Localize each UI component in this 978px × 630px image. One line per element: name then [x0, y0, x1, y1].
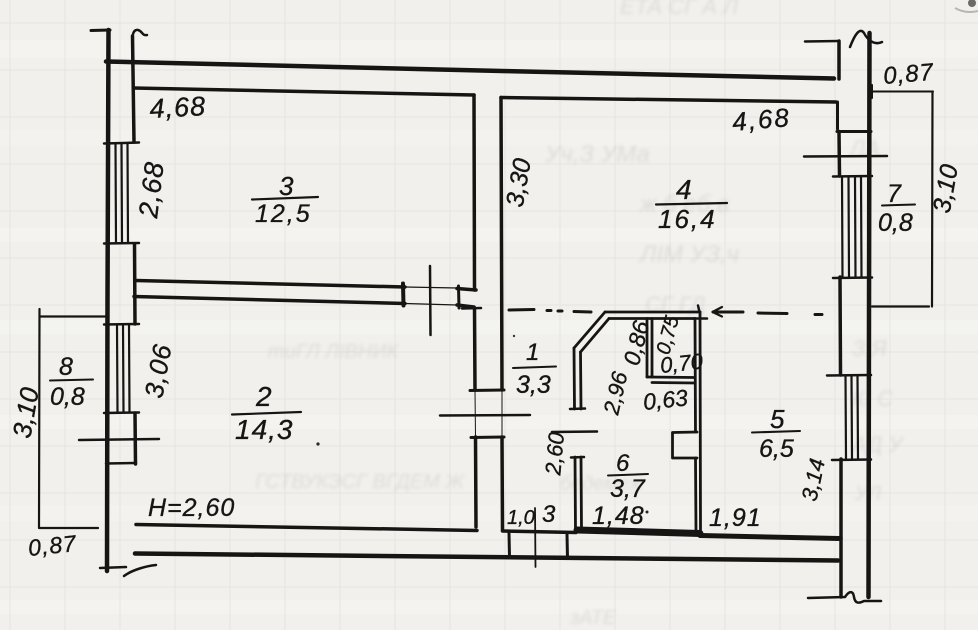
bathroom top right foot tick: [694, 317, 707, 320]
interior wall rooms3-2: upper line: [136, 281, 405, 288]
interior wall rooms3-4 / hall left: east line: [501, 98, 502, 391]
exterior wall top: inner line room 3: [134, 88, 475, 95]
door room3-room2: east post: [457, 286, 461, 308]
window W2 glazing lines: [117, 325, 130, 412]
door room2-hall: top tick: [470, 389, 504, 393]
svg-text:6,5: 6,5: [759, 435, 794, 463]
stray ink speck room2: [316, 442, 319, 445]
window W4 bottom tick: [832, 458, 871, 461]
svg-text:7: 7: [887, 180, 902, 208]
svg-text:H=2,60: H=2,60: [148, 494, 235, 522]
balcony 7: bottom edge: [872, 305, 929, 307]
window W3 room4 right wall: top tick: [833, 175, 872, 178]
svg-text:5: 5: [770, 404, 785, 434]
exterior wall left: bottom break slash: [124, 565, 156, 576]
window W1 bottom tick: [104, 242, 139, 245]
svg-text:6: 6: [616, 450, 630, 477]
dimension divider 1.0|3: [534, 508, 537, 567]
exterior wall left: top end tick: [91, 29, 110, 33]
exterior wall left: outer line: [107, 30, 109, 571]
bathroom block: top wall double: [605, 311, 700, 314]
dash-dot former partition line: [509, 308, 534, 312]
svg-text:12,5: 12,5: [255, 200, 312, 228]
svg-text:0,87: 0,87: [882, 59, 936, 90]
bleed-through ghost text: [255, 0, 905, 629]
hall top junction tick: [462, 307, 481, 310]
bathroom block: left wall east line: [579, 352, 582, 409]
bathroom block: diagonal corner double: [574, 312, 605, 348]
exterior wall right: outer line: [869, 33, 870, 597]
window W3 lintel/leaf line: [804, 155, 887, 158]
svg-text:2: 2: [255, 381, 272, 412]
window W3 bottom tick: [833, 276, 872, 279]
svg-text:14,3: 14,3: [235, 414, 294, 445]
bathroom block: top right end tick: [698, 306, 700, 313]
balcony door left: lintel/leaf line: [79, 439, 159, 440]
corner blob top right: [968, 0, 976, 7]
svg-text:ЕТА СГ А Л: ЕТА СГ А Л: [620, 0, 739, 19]
window W4 kitchen right wall: top tick: [827, 374, 871, 377]
svg-text:4: 4: [676, 174, 692, 205]
bathroom block: left wall west line: [573, 348, 576, 409]
svg-text:3,3: 3,3: [516, 371, 551, 399]
svg-text:ЛІМ УЗ,ч: ЛІМ УЗ,ч: [638, 241, 739, 268]
vent box: horizontal double: [647, 377, 695, 383]
balcony 7: right edge: [931, 92, 934, 307]
exterior wall left: inner line segments: [133, 36, 135, 142]
exterior wall left: bottom end tick: [100, 567, 126, 568]
svg-text:3,7: 3,7: [610, 475, 646, 503]
window W3 glazing lines: [842, 177, 862, 277]
balcony 7 (right): top dimension line: [872, 91, 933, 93]
window W2 room2 left wall: top tick: [104, 323, 139, 326]
svg-text:4,68: 4,68: [731, 102, 792, 137]
svg-text:ГСТВУКЭСГ ВГДЕМ Ж: ГСТВУКЭСГ ВГДЕМ Ж: [255, 471, 466, 493]
svg-text:0,8: 0,8: [50, 383, 85, 411]
exterior wall top: outer line: [106, 62, 834, 79]
exterior wall right: top break curl: [850, 31, 882, 47]
vent box: vertical double: [647, 319, 652, 378]
door room2-hall: bottom tick: [471, 436, 504, 440]
door room2-hall: leaf line: [440, 414, 530, 417]
balcony door right: sill line: [837, 130, 871, 133]
bottom wall kitchen band: [700, 536, 839, 539]
bathroom door: bottom tick: [571, 456, 584, 459]
bottom wall bathroom thick band: [577, 530, 700, 534]
bottom wall hall inner line: [503, 531, 577, 533]
stray ink speck room4: [513, 335, 515, 337]
svg-text:1,48: 1,48: [592, 502, 645, 530]
door room3-room2: west post: [401, 284, 406, 306]
door room3-room2: leaf line: [429, 266, 432, 335]
exterior wall bottom: outer line: [135, 554, 838, 561]
svg-text:2,60: 2,60: [540, 430, 569, 477]
exterior wall right: inner stub above top wall: [837, 41, 841, 79]
bathroom block: right wall east line: [699, 312, 702, 530]
bathroom vent notch: [673, 432, 698, 458]
svg-text:зАТЕ: зАТЕ: [569, 607, 617, 629]
svg-text:3: 3: [542, 501, 556, 528]
exterior wall right: inner line segments: [837, 132, 841, 177]
svg-text:0,70: 0,70: [659, 349, 705, 378]
interior wall rooms3-4 / hall left: west line: [472, 95, 476, 290]
bathroom door: top tick: [570, 407, 585, 410]
exterior wall right: top tick: [805, 40, 839, 43]
window W1 room3 left wall: top tick: [104, 143, 139, 144]
svg-text:16,4: 16,4: [658, 204, 717, 234]
bathroom block: right wall west line: [694, 319, 697, 433]
balcony 8 (left): outline: [39, 309, 108, 528]
bathroom door: leaf line: [552, 430, 597, 433]
entry porch: west jamb: [508, 534, 512, 558]
window W4 glazing lines: [846, 376, 859, 459]
exterior wall right: bottom break squiggle: [808, 592, 881, 603]
bottom wall room2 inner line: [136, 525, 477, 531]
svg-text:8: 8: [59, 353, 73, 381]
balcony door right: jamb down from top wall: [836, 102, 839, 129]
balcony door left: top tick: [106, 462, 136, 465]
svg-text:1: 1: [526, 339, 539, 366]
exterior wall top: inner line room 4: [501, 98, 836, 103]
svg-text:4,68: 4,68: [149, 91, 207, 124]
svg-text:3: 3: [279, 171, 294, 201]
exterior wall right: below-building pillar: [839, 538, 843, 597]
svg-text:0,8: 0,8: [878, 209, 913, 237]
svg-text:1,91: 1,91: [709, 504, 762, 532]
stray ink speck near 1,48: [646, 511, 649, 514]
window W1 glazing lines: [116, 144, 129, 243]
balcony 7: arrow tick at wall: [871, 85, 873, 98]
svg-text:Уч,З УМа: Уч,З УМа: [544, 141, 650, 168]
svg-text:1,0: 1,0: [507, 507, 535, 529]
svg-text:тиГЛ ЛІВНИК: тиГЛ ЛІВНИК: [268, 341, 400, 363]
svg-text:0,63: 0,63: [642, 384, 689, 415]
svg-text:0,87: 0,87: [27, 530, 78, 561]
window W2 bottom tick: [104, 411, 139, 414]
entry porch: east jamb: [566, 535, 570, 559]
exterior wall left: top break curl: [132, 30, 147, 48]
interior wall rooms3-2: lower line: [134, 297, 405, 304]
